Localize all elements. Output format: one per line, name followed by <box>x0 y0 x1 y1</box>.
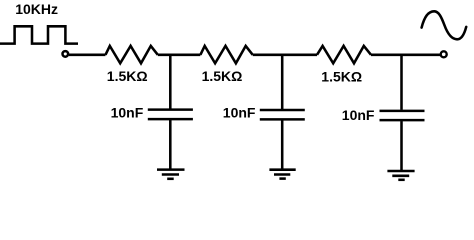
ground (C3) <box>387 171 414 180</box>
resistor R3 <box>317 46 371 63</box>
svg-text:10nF: 10nF <box>223 105 256 121</box>
svg-text:10nF: 10nF <box>111 105 144 121</box>
wire input to R1 <box>69 54 106 57</box>
svg-text:1.5KΩ: 1.5KΩ <box>321 68 362 84</box>
resistor R2 <box>200 46 252 63</box>
square wave source symbol <box>0 26 78 43</box>
node B branch wire to C2 <box>281 55 284 109</box>
ground (C1) <box>157 170 185 179</box>
capacitor C3 <box>380 111 425 120</box>
wire R2 to node B to R3 <box>253 54 317 57</box>
output terminal <box>441 51 447 57</box>
node C branch wire to C3 <box>400 55 403 110</box>
wire C3 to ground <box>400 121 403 170</box>
input terminal <box>63 51 69 57</box>
ground (C2) <box>269 170 295 179</box>
svg-text:10KHz: 10KHz <box>15 1 58 17</box>
wire R3 to node C to output <box>371 54 440 57</box>
svg-text:10nF: 10nF <box>342 107 375 123</box>
wire C1 to ground <box>169 120 172 169</box>
wire C2 to ground <box>281 120 284 168</box>
capacitor C1 <box>148 110 193 120</box>
capacitor C2 <box>260 110 305 119</box>
node A branch wire to C1 <box>169 55 172 109</box>
sine wave symbol <box>422 11 467 39</box>
svg-text:1.5KΩ: 1.5KΩ <box>202 68 243 84</box>
svg-text:1.5KΩ: 1.5KΩ <box>107 68 148 84</box>
wire R1 to node A to R2 <box>158 54 201 57</box>
resistor R1 <box>106 46 158 63</box>
